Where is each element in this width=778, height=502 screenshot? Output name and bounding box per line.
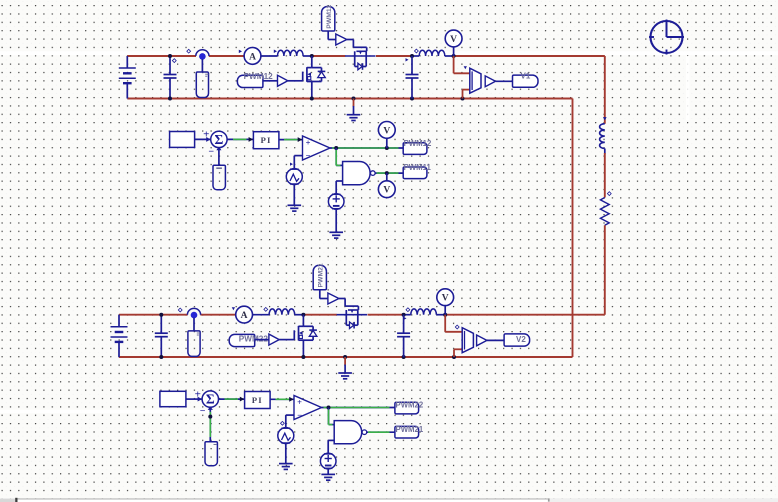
svg-text:Σ: Σ bbox=[206, 392, 215, 407]
svg-text:V: V bbox=[442, 294, 449, 304]
svg-text:V: V bbox=[383, 186, 390, 196]
svg-text:V: V bbox=[450, 35, 457, 45]
svg-text:PWM11: PWM11 bbox=[404, 163, 432, 172]
svg-text:−: − bbox=[306, 150, 311, 160]
svg-text:V1: V1 bbox=[521, 72, 531, 81]
svg-text:−: − bbox=[208, 147, 214, 158]
svg-text:Σ: Σ bbox=[214, 132, 223, 147]
svg-text:A: A bbox=[241, 311, 248, 321]
svg-text:PWM21: PWM21 bbox=[318, 263, 325, 287]
svg-text:PWM22: PWM22 bbox=[396, 400, 424, 409]
svg-text:−: − bbox=[297, 410, 302, 420]
svg-text:PWM12: PWM12 bbox=[244, 72, 274, 81]
svg-text:+: + bbox=[306, 138, 311, 148]
svg-text:+: + bbox=[203, 129, 209, 141]
svg-text:PI: PI bbox=[252, 395, 263, 405]
svg-text:V: V bbox=[383, 126, 390, 136]
svg-text:PWM21: PWM21 bbox=[396, 425, 424, 434]
svg-text:V2: V2 bbox=[516, 335, 526, 344]
svg-text:PI: PI bbox=[260, 135, 271, 145]
svg-text:PWM11: PWM11 bbox=[326, 5, 333, 29]
svg-text:PWM12: PWM12 bbox=[404, 139, 432, 148]
svg-text:+: + bbox=[297, 397, 302, 407]
svg-text:A: A bbox=[249, 52, 256, 62]
svg-text:+: + bbox=[195, 388, 201, 400]
svg-text:−: − bbox=[200, 406, 206, 417]
